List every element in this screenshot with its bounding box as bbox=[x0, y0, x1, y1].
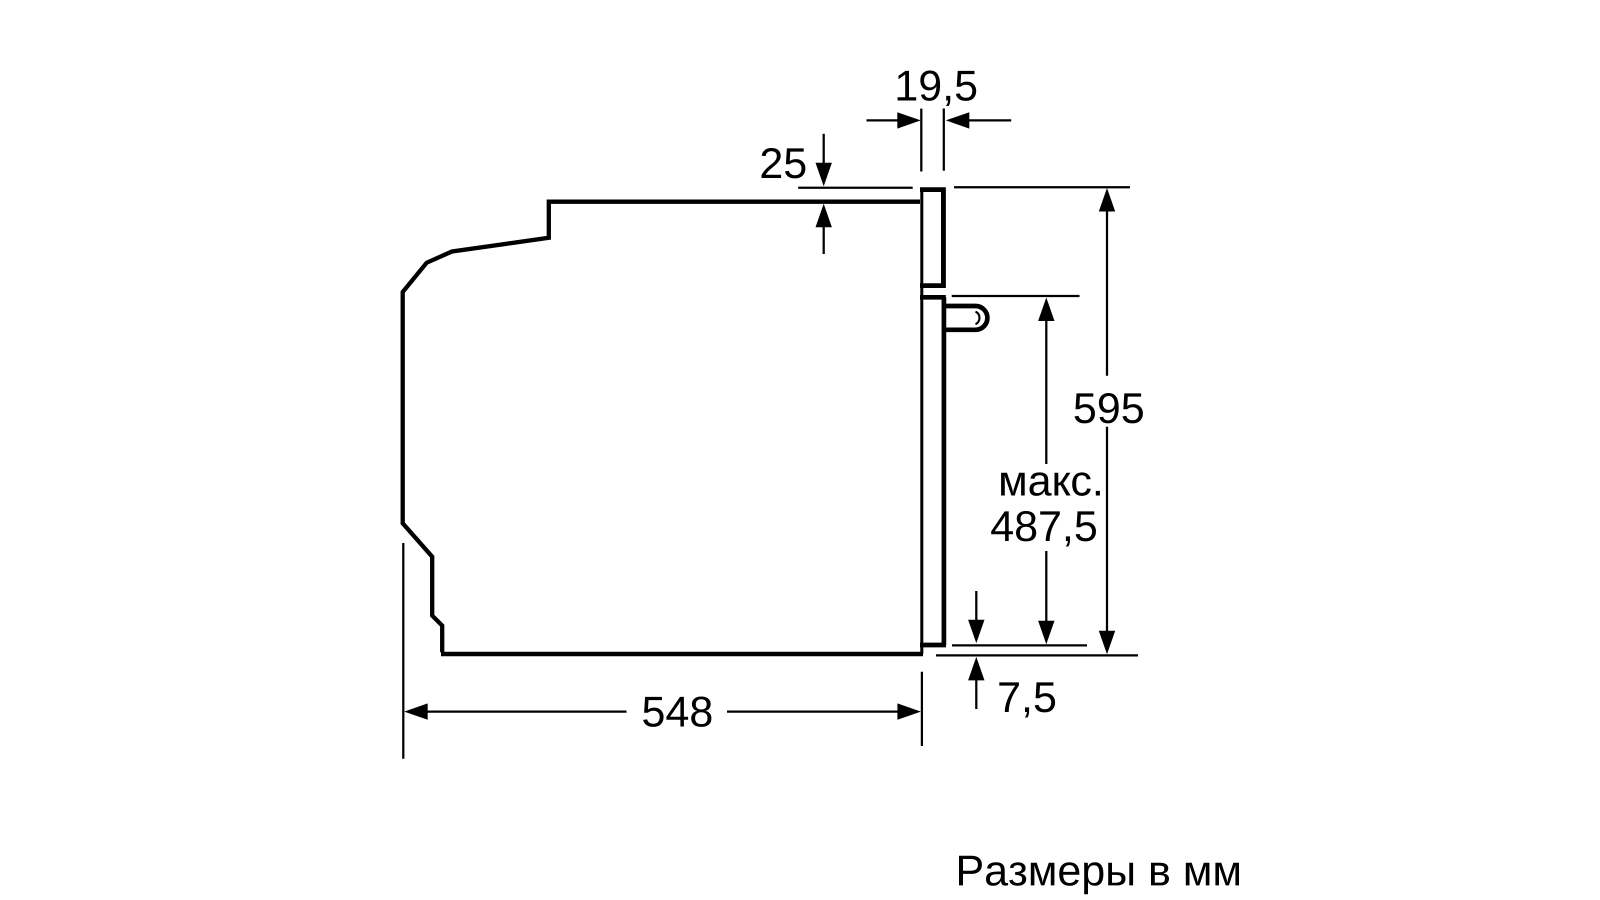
dimension 487,5 line bbox=[1045, 319, 1047, 622]
595 top extension line bbox=[954, 186, 1130, 188]
487,5 top extension line bbox=[952, 295, 1080, 297]
oven door upper panel bbox=[920, 188, 943, 288]
dimension 548 left arrow bbox=[404, 703, 428, 719]
dimension label 25 bbox=[762, 148, 806, 178]
dimension 19,5 right arrow bbox=[946, 112, 1011, 128]
dimension 487,5 top arrow bbox=[1038, 298, 1054, 322]
caption Размеры в мм bbox=[959, 856, 1239, 895]
dimension label макс. bbox=[1001, 472, 1100, 496]
dimension 7,5 up arrow bbox=[968, 657, 984, 709]
dimension 487,5 bottom arrow bbox=[1038, 621, 1054, 645]
dimension label 19,5 bbox=[898, 71, 977, 107]
dimension label 595 bbox=[1075, 393, 1143, 423]
dimension 25 up arrow bbox=[816, 204, 832, 254]
dimension 25 down arrow bbox=[816, 134, 832, 187]
oven door back edge line bbox=[920, 190, 923, 654]
dimension 548 line bbox=[426, 710, 898, 712]
door bottom extension line bbox=[952, 644, 1087, 646]
dimension 7,5 down arrow bbox=[968, 591, 984, 643]
oven door neck cap bbox=[920, 295, 946, 300]
dimension label 7,5 bbox=[999, 682, 1055, 717]
dimension 19,5 extension lines bbox=[921, 109, 944, 172]
dimension 548 right arrow bbox=[897, 703, 921, 719]
dimension 548 extension lines bbox=[403, 543, 922, 759]
dimension label 487,5 bbox=[991, 511, 1096, 547]
dimension 19,5 left arrow bbox=[867, 112, 921, 128]
dimension 595 line bbox=[1106, 210, 1108, 632]
door handle bbox=[944, 306, 987, 330]
dimension 595 bottom arrow bbox=[1099, 631, 1115, 655]
dimension label 548 bbox=[643, 697, 711, 727]
oven door lower panel front edge bbox=[942, 297, 947, 645]
oven body outline bbox=[403, 202, 923, 654]
oven door bottom cap bbox=[920, 643, 946, 648]
dimension 25 top reference line bbox=[798, 187, 913, 189]
dimension 595 top arrow bbox=[1099, 188, 1115, 212]
floor reference line bbox=[936, 654, 1138, 656]
